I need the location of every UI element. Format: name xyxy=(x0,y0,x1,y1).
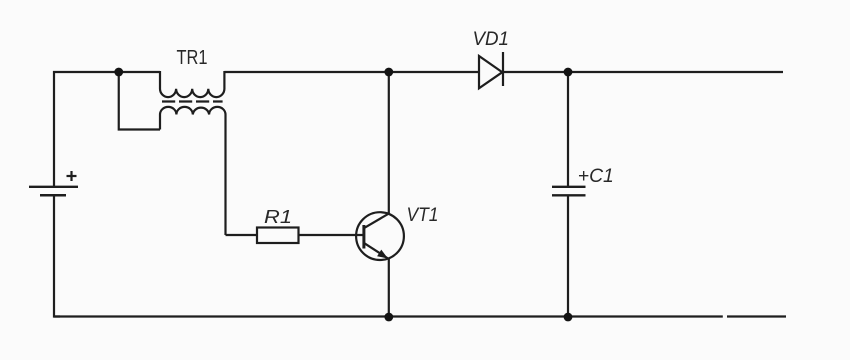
wire bottom rail right xyxy=(727,315,786,317)
svg-text:+C1: +C1 xyxy=(578,165,614,187)
transformer TR1 primary winding xyxy=(160,71,224,97)
node A junction dot xyxy=(114,68,123,77)
battery GB1 xyxy=(29,171,78,195)
wire emitter to bottom rail xyxy=(388,259,390,318)
transistor VT1 xyxy=(356,212,404,260)
diode VD1 xyxy=(479,52,503,88)
wire C1 top lead xyxy=(567,72,569,186)
capacitor C1 xyxy=(552,187,586,196)
transformer TR1 core xyxy=(162,100,223,102)
wire from node A down to primary return xyxy=(119,72,160,130)
node C1 bottom junction dot xyxy=(564,313,573,322)
svg-text:R1: R1 xyxy=(264,206,292,227)
node output junction dot xyxy=(564,68,573,77)
node emitter junction dot xyxy=(384,313,393,322)
wire bottom rail left xyxy=(54,315,723,317)
svg-text:VT1: VT1 xyxy=(407,204,439,226)
wire top rail left xyxy=(53,71,160,73)
wire top rail right xyxy=(503,71,784,73)
wire battery positive lead xyxy=(53,71,55,186)
wire R1 to base xyxy=(299,234,364,236)
wire collector to top rail xyxy=(388,72,390,214)
svg-text:VD1: VD1 xyxy=(473,28,510,50)
wire C1 bottom lead xyxy=(567,196,569,318)
wire battery negative lead xyxy=(54,196,60,317)
wire secondary to R1 xyxy=(226,234,258,236)
wire top rail middle xyxy=(224,71,479,73)
svg-text:TR1: TR1 xyxy=(177,47,208,69)
transformer TR1 secondary winding xyxy=(160,107,226,235)
node collector junction dot xyxy=(384,68,393,77)
resistor R1 xyxy=(257,228,299,244)
